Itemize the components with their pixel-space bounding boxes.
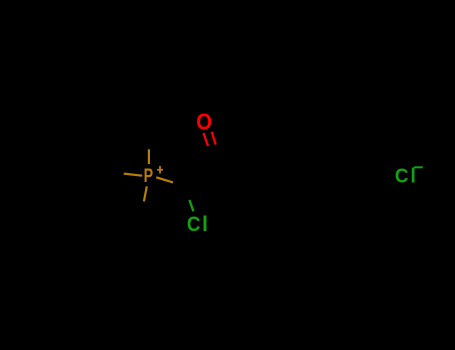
wire P to phenyl (left) [124,174,142,176]
svg-text:l: l [410,165,416,187]
wire P to phenyl (up) [148,149,150,164]
wire P to phenyl (down) [144,186,147,201]
svg-text:C: C [395,165,409,187]
C=O double bond (red halves) [203,133,208,146]
plus charge [157,169,163,171]
wire P to CHCl (right) [156,177,173,182]
svg-text:l: l [202,212,208,236]
svg-text:C: C [187,212,201,236]
svg-text:P: P [144,166,154,187]
wire C-Cl (green half) [189,200,193,211]
svg-text:O: O [196,108,212,134]
